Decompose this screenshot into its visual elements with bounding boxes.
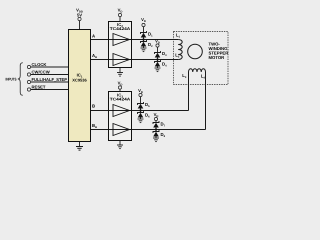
svg-text:A: A: [92, 34, 95, 39]
svg-text:5V: 5V: [77, 12, 82, 17]
svg-text:MOTOR: MOTOR: [209, 55, 225, 60]
svg-text:B: B: [92, 104, 95, 109]
svg-text:INPUTS: INPUTS: [6, 76, 17, 81]
svg-text:CW/CCW: CW/CCW: [32, 70, 50, 75]
svg-text:FULL/HALF_STEP: FULL/HALF_STEP: [32, 77, 68, 82]
svg-text:XC9536: XC9536: [72, 78, 87, 83]
svg-text:CLOCK: CLOCK: [32, 62, 47, 67]
svg-text:TC4424A: TC4424A: [110, 26, 131, 31]
svg-text:RESET: RESET: [32, 85, 46, 90]
svg-text:TC4424A: TC4424A: [110, 96, 131, 101]
